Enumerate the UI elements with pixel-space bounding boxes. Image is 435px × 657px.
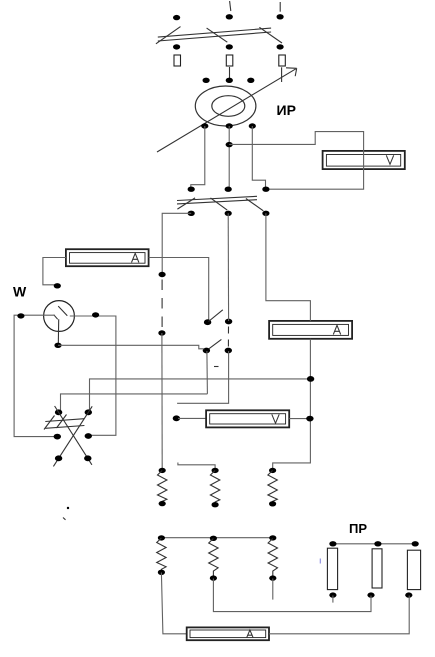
fuse FC: [279, 55, 286, 66]
node reversing switch middle-right: [85, 433, 92, 439]
fuse FB: [226, 55, 233, 66]
node L1 top: [158, 535, 165, 540]
node QS2 bottom right: [262, 211, 269, 216]
ammeter A2: [269, 321, 352, 339]
node fuse F3 bottom: [405, 592, 412, 597]
node reversing switch top-right: [85, 409, 92, 415]
load coil L1: [157, 538, 166, 572]
node contact K1 top: [204, 319, 211, 325]
node fuse F3 top: [412, 541, 419, 546]
regulator adjustment arrow: [157, 68, 297, 152]
wire W to contact K1: [58, 345, 204, 349]
svg-text:ИР: ИР: [277, 102, 296, 118]
node R3 top: [269, 468, 276, 473]
wire regulator middle to QS2: [228, 126, 230, 189]
load bank busbar: [161, 537, 272, 539]
blue speck: [319, 559, 321, 564]
wire feeder dashed section: [161, 280, 163, 331]
node feeder lower tap: [158, 330, 165, 335]
node W right: [92, 312, 99, 317]
switch QS1 blade phase C: [259, 27, 282, 43]
induction regulator IR outer: [195, 86, 256, 126]
node R1 bottom: [159, 501, 166, 506]
node phase C below QS1: [277, 44, 284, 49]
fuse F2 body: [372, 549, 382, 588]
wire V2 left lead: [178, 417, 206, 419]
node regulator bottom left: [201, 123, 208, 128]
wire W bottom stem: [57, 319, 59, 345]
reversing switch blade tick 1: [44, 416, 55, 430]
wire QS2 left to feeder: [162, 213, 191, 274]
node phase B below QS1: [226, 44, 233, 49]
node L3 bottom: [269, 575, 276, 580]
node contact K2 bottom: [225, 348, 232, 354]
node QS2 top left: [188, 187, 195, 192]
wattmeter internal stroke upper: [58, 306, 67, 316]
node regulator top middle: [226, 78, 233, 83]
wire feeder to resistor R1: [161, 333, 163, 470]
wire A2 bottom lead: [273, 339, 311, 470]
switch QS1 blade phase B: [207, 28, 228, 42]
wire L1 to A3: [161, 573, 186, 634]
node reversing switch bottom-left: [55, 455, 62, 461]
node fuse F2 bottom: [367, 592, 374, 597]
node V2 right junction: [306, 416, 313, 422]
node fuse F1 bottom: [329, 592, 336, 597]
node phase A below QS1: [173, 44, 180, 49]
node A1 left end: [54, 283, 61, 288]
wire V2 right lead: [289, 418, 309, 420]
induction regulator IR inner: [212, 96, 245, 117]
fuse FA: [174, 55, 181, 66]
resistor R2: [210, 471, 219, 505]
node line A junction: [307, 376, 314, 382]
wire V1 loop: [229, 132, 363, 190]
contact K1 blade lower: [208, 339, 222, 349]
minus mark: [214, 366, 219, 368]
contact K1 blade upper: [209, 310, 223, 322]
svg-text:ПР: ПР: [349, 521, 367, 536]
wire A3 to F3: [269, 596, 409, 634]
node QS2 top right: [262, 187, 269, 192]
switch QS2 blade left: [177, 198, 195, 209]
wire L3 stub: [272, 579, 274, 600]
wire A1 right lead: [149, 258, 209, 322]
node fuse F2 top: [374, 541, 381, 546]
wattmeter W circle: [44, 301, 75, 332]
reversing switch blade tick 2: [57, 415, 67, 429]
reversing switch cross diagonal 1: [55, 406, 92, 465]
node regulator top right: [247, 78, 254, 83]
node R1 top: [159, 468, 166, 473]
node regulator bottom right: [249, 123, 256, 128]
node reversing switch middle-left: [54, 434, 61, 440]
wire K2 feed from QS2 middle: [227, 213, 229, 321]
wire A1 left lead: [43, 258, 66, 285]
node phase B top: [226, 14, 233, 19]
wire K2 to V2 branch: [177, 351, 229, 403]
switch QS2 blade middle: [211, 198, 228, 210]
node L3 top: [269, 535, 276, 540]
node V2 left terminal: [173, 415, 180, 421]
wire regulator left to QS2: [191, 126, 205, 190]
fuse F3 body: [407, 550, 420, 589]
node contact K2 top: [225, 319, 232, 325]
wire regulator right to QS2: [252, 126, 265, 189]
speck dot 1: [67, 507, 69, 509]
node QS2 bottom left: [188, 211, 195, 216]
node QS2 bottom middle: [225, 211, 232, 216]
node L2 bottom: [210, 575, 217, 580]
reversing switch hatch lines: [45, 419, 84, 429]
switch QS2 blade right: [246, 199, 263, 211]
wire F1 stub: [332, 596, 334, 603]
node V1 tap junction: [226, 142, 233, 147]
node regulator bottom middle: [226, 123, 233, 128]
wire fuse FC stub: [281, 67, 283, 82]
node phase A top: [173, 15, 180, 20]
voltmeter V1: [323, 151, 405, 169]
wire K1 to line B: [206, 351, 209, 394]
switch QS1 blade phase A: [156, 27, 181, 44]
wire phase C top stub: [279, 2, 281, 12]
node feeder tap: [159, 272, 166, 277]
wire resistor R2 feed: [178, 463, 215, 470]
wattmeter internal stroke lower: [54, 315, 58, 320]
knife switch QS1 busbar: [158, 28, 271, 41]
fuse F1 body: [327, 548, 337, 589]
node R2 top: [212, 468, 219, 473]
node L1 bottom: [158, 570, 165, 575]
wire L2 to F2: [213, 579, 371, 612]
node phase C top: [277, 14, 284, 19]
ammeter A3: [187, 627, 269, 640]
wire phase B top stub: [230, 1, 231, 11]
speck tick 2: [63, 518, 66, 520]
wire W left lead: [14, 315, 55, 436]
wire QS2 right to A2: [266, 213, 311, 321]
node regulator top left: [203, 78, 210, 83]
node reversing switch top-left: [55, 409, 62, 415]
resistor R1: [158, 471, 167, 504]
knife switch QS2 busbar: [177, 196, 257, 204]
node L2 top: [210, 536, 217, 541]
load coil L3: [268, 539, 277, 579]
node reversing switch bottom-right: [84, 455, 91, 461]
node W left: [17, 313, 24, 318]
node fuse F1 top: [329, 541, 336, 546]
wire fuse FB to regulator: [229, 67, 231, 80]
load coil L2: [209, 539, 218, 579]
fuse bank busbar: [333, 543, 416, 545]
svg-text:W: W: [13, 283, 27, 299]
ammeter A1: [66, 249, 149, 266]
node contact K1 bottom: [203, 348, 210, 354]
wire line A: [90, 379, 311, 411]
node R3 bottom: [269, 501, 276, 506]
node W stem junction: [54, 343, 61, 348]
wire line B: [61, 394, 208, 411]
wire W right lead: [70, 316, 116, 435]
resistor R3: [268, 471, 277, 504]
reversing switch cross diagonal 2: [53, 406, 92, 466]
node R2 bottom: [212, 502, 219, 507]
contact K2 dashed gap: [227, 327, 229, 349]
voltmeter V2: [206, 410, 289, 427]
node QS2 top middle: [225, 187, 232, 192]
